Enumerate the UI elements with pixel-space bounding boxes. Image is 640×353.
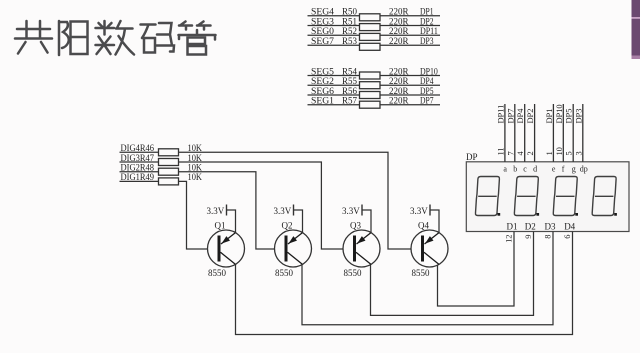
svg-text:D1: D1 [507,222,518,232]
wire net DP7 to display pin 7 [514,104,516,162]
svg-text:DP1: DP1 [420,8,434,18]
resistor R49 10K [159,173,203,185]
wire net DP10 (right of R54) [380,75,440,77]
svg-text:c: c [523,165,527,174]
svg-text:8550: 8550 [344,268,363,278]
svg-text:7: 7 [506,151,515,155]
svg-text:SEG5: SEG5 [311,67,334,77]
svg-text:SEG2: SEG2 [311,77,334,87]
svg-text:11: 11 [496,147,505,155]
svg-text:f: f [562,165,565,174]
svg-text:DP5: DP5 [420,87,434,97]
resistor R54 220R [342,67,409,79]
svg-text:12: 12 [505,235,514,243]
wire net SEG1 (left of R57) [308,104,361,106]
svg-text:a: a [503,165,507,174]
svg-text:3.3V: 3.3V [410,206,428,216]
svg-text:DP7: DP7 [420,97,434,107]
svg-text:DIG4R46: DIG4R46 [121,144,155,154]
digit 2 outline [514,177,539,216]
svg-text:DIG1R49: DIG1R49 [121,173,155,183]
wire net SEG7 (left of R53) [308,44,361,46]
svg-text:DP5: DP5 [565,109,574,124]
digit 2 decimal point [536,213,539,216]
svg-text:D2: D2 [525,222,536,232]
resistor R47 10K [159,154,203,166]
digit 4 decimal point [614,213,617,216]
wire net SEG0 (left of R52) [308,34,361,36]
svg-text:R53: R53 [342,37,357,47]
svg-text:Q3: Q3 [350,221,361,231]
svg-text:D4: D4 [564,222,575,232]
svg-text:DP: DP [466,152,478,162]
svg-text:DP11: DP11 [496,105,505,124]
wire net DP5 to display pin 5 [572,104,574,162]
digit 3 decimal point [575,213,578,216]
wire net DP1 to display pin 1 [552,104,554,162]
svg-text:3.3V: 3.3V [342,206,360,216]
wire display pin 12 to transistor collector [438,232,515,307]
svg-text:SEG1: SEG1 [311,97,334,107]
wire net SEG4 (left of R50) [308,15,361,17]
wire net DP3 (right of R53) [380,44,440,46]
svg-text:DP4: DP4 [516,108,525,124]
svg-text:R50: R50 [342,8,357,18]
wire net DP4 to display pin 4 [524,104,526,162]
wire net DP11 (right of R52) [380,34,440,36]
wire net DP4 (right of R55) [380,84,440,86]
wire display pin 8 to transistor collector [302,232,553,325]
digit 1 decimal point [498,213,501,216]
digit 4 outline [592,177,617,216]
power 3.3V (emitter of Q3) [342,205,371,234]
svg-text:e: e [552,165,556,174]
svg-text:8550: 8550 [412,268,431,278]
svg-text:DP10: DP10 [555,104,564,123]
digit 1 outline [475,177,500,216]
resistor R46 10K [159,144,203,156]
svg-text:DP7: DP7 [506,109,515,124]
wire R46 to transistor base [179,152,412,249]
wire net DP10 to display pin 10 [562,104,564,162]
svg-text:dp: dp [580,165,588,174]
svg-text:6: 6 [563,235,572,239]
resistor R52 220R [342,27,409,40]
power 3.3V (emitter of Q1) [207,205,236,234]
svg-text:SEG6: SEG6 [311,87,334,97]
svg-text:DP11: DP11 [420,27,438,37]
svg-text:DIG3R47: DIG3R47 [121,154,155,164]
svg-text:SEG7: SEG7 [311,37,334,47]
svg-text:2: 2 [526,151,535,155]
svg-text:R52: R52 [342,27,357,37]
svg-text:3.3V: 3.3V [207,206,225,216]
svg-text:R54: R54 [342,67,357,77]
wire net SEG6 (left of R56) [308,94,361,96]
resistor R48 10K [159,164,203,176]
wire net DP5 (right of R56) [380,94,440,96]
svg-text:SEG4: SEG4 [311,8,334,18]
resistor R56 220R [342,87,409,99]
wire net DIG2 (left of R48) [120,171,159,173]
svg-text:Q4: Q4 [418,221,429,231]
svg-text:SEG0: SEG0 [311,27,334,37]
svg-text:SEG3: SEG3 [311,17,334,27]
wire net DP7 (right of R57) [380,104,440,106]
resistor R57 220R [342,97,409,109]
svg-text:3: 3 [574,151,583,155]
svg-text:DP3: DP3 [420,37,434,47]
svg-text:3.3V: 3.3V [274,206,292,216]
svg-text:R57: R57 [342,97,357,107]
resistor R53 220R [342,37,409,50]
decorative purple sidebar [632,0,640,59]
wire R47 to transistor base [179,162,344,249]
svg-text:D3: D3 [545,222,556,232]
svg-text:DP2: DP2 [526,109,535,124]
svg-text:8550: 8550 [275,268,294,278]
wire R48 to transistor base [179,172,275,249]
svg-text:DP3: DP3 [574,109,583,124]
resistor R50 220R [342,8,409,21]
transistor Q3 8550 [343,221,380,279]
wire net DP1 (right of R50) [380,15,440,17]
wire net DP11 to display pin 11 [504,104,506,162]
wire net DP2 to display pin 2 [534,104,536,162]
transistor Q1 8550 [208,221,245,279]
svg-text:d: d [533,165,537,174]
4-digit 7-segment display DP [466,162,629,232]
svg-text:1: 1 [545,151,554,155]
svg-text:8: 8 [544,235,553,239]
transistor Q2 8550 [275,221,312,279]
digit 3 outline [553,177,578,216]
svg-text:b: b [513,165,517,174]
wire net DIG1 (left of R49) [120,180,159,182]
svg-text:DP1: DP1 [545,109,554,124]
svg-text:10: 10 [555,147,564,155]
svg-text:10K: 10K [188,173,203,183]
svg-text:Q2: Q2 [282,221,293,231]
svg-text:DP10: DP10 [420,67,438,77]
transistor Q4 8550 [411,221,448,279]
wire net DP3 to display pin 3 [582,104,584,162]
power 3.3V (emitter of Q4) [410,205,439,234]
wire net DP2 (right of R51) [380,25,440,27]
wire R49 to transistor base [179,181,208,249]
svg-text:Q1: Q1 [215,221,226,231]
wire net SEG5 (left of R54) [308,75,361,77]
resistor R51 220R [342,17,409,30]
svg-text:DIG2R48: DIG2R48 [121,164,155,174]
wire display pin 6 to transistor collector [236,232,573,335]
wire net DIG3 (left of R47) [120,161,159,163]
svg-text:DP2: DP2 [420,17,434,27]
wire net SEG3 (left of R51) [308,25,361,27]
resistor R55 220R [342,77,409,89]
svg-text:R56: R56 [342,87,357,97]
power 3.3V (emitter of Q2) [274,205,303,234]
wire net SEG2 (left of R55) [308,84,361,86]
title 共阳数码管 [15,21,216,55]
svg-text:R55: R55 [342,77,357,87]
svg-text:DP4: DP4 [420,77,434,87]
wire net DIG4 (left of R46) [120,151,159,153]
svg-text:8550: 8550 [208,268,227,278]
wire display pin 9 to transistor collector [371,232,534,316]
svg-text:R51: R51 [342,17,357,27]
svg-text:9: 9 [524,235,533,239]
svg-text:g: g [572,165,576,174]
svg-text:5: 5 [565,151,574,155]
